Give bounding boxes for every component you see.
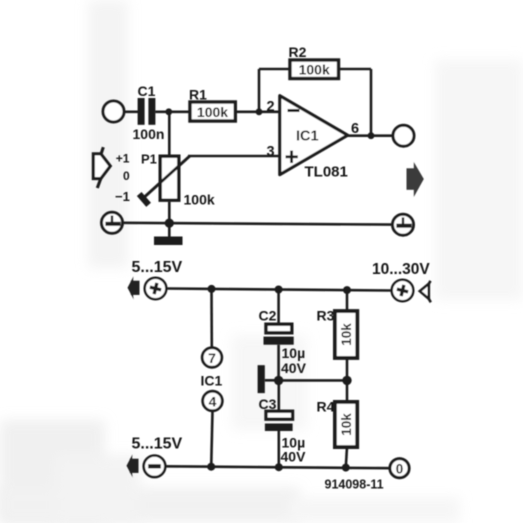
wire pin4 to bottom rail [211, 411, 212, 467]
wire C3 to bottom rail [277, 431, 280, 467]
wire ground bar to node [265, 379, 279, 382]
svg-text:5...15V: 5...15V [132, 436, 183, 453]
wire down to output [370, 69, 373, 136]
svg-text:TL081: TL081 [305, 164, 348, 181]
pot wiper arrowhead [139, 194, 148, 205]
wire node to R4 [346, 380, 349, 402]
wire rail to pin7 [210, 289, 213, 348]
node C3 bottom [275, 463, 283, 471]
svg-text:7: 7 [208, 350, 216, 366]
wire to R2 [259, 68, 290, 71]
ground terminal left [102, 212, 123, 233]
node pin7 branch [208, 285, 216, 293]
resistor R2 [290, 60, 339, 79]
svg-text:100n: 100n [133, 126, 165, 142]
wire R1 to pin 2 [235, 111, 280, 114]
input terminal [103, 101, 124, 122]
svg-text:100k: 100k [299, 62, 330, 78]
capacitor C2 [264, 324, 294, 345]
wire pot wiper to pin 3 [188, 155, 280, 158]
wire midpoint to R3/R4 [279, 379, 347, 382]
node R3/R4 junction [342, 376, 351, 385]
wire C2 down [277, 345, 280, 381]
wire R4 to bottom rail [346, 447, 347, 467]
pin 4 terminal [203, 391, 223, 411]
svg-text:+1: +1 [116, 152, 130, 166]
node pot/ground junction [165, 219, 174, 228]
svg-text:0: 0 [396, 462, 404, 477]
svg-text:C1: C1 [138, 83, 156, 99]
svg-text:R2: R2 [289, 44, 307, 60]
output arrow [407, 162, 424, 197]
supply arrow left top [128, 276, 140, 299]
svg-text:R1: R1 [189, 87, 207, 103]
wire rail to C2 [277, 290, 280, 325]
ground terminal right [393, 214, 414, 235]
svg-text:IC1: IC1 [296, 129, 319, 145]
potentiometer P1 [160, 156, 179, 200]
svg-text:10k: 10k [339, 413, 354, 436]
terminal minus [144, 456, 166, 478]
svg-text:R3: R3 [317, 308, 335, 324]
svg-text:10...30V: 10...30V [372, 261, 430, 278]
node feedback junction [256, 108, 263, 115]
svg-text:C2: C2 [259, 308, 277, 324]
svg-text:914098-11: 914098-11 [325, 478, 384, 492]
capacitor C3 [265, 411, 293, 431]
svg-text:−1: −1 [115, 189, 130, 204]
svg-text:4: 4 [209, 394, 217, 410]
wire C1 to R1 [155, 111, 190, 114]
capacitor C1 [138, 98, 156, 125]
wire R3 to node [346, 358, 349, 380]
bottom rail [165, 466, 390, 468]
svg-text:IC1: IC1 [201, 373, 223, 389]
svg-text:R4: R4 [317, 399, 335, 415]
node R4 bottom [342, 464, 350, 472]
svg-text:40V: 40V [281, 360, 307, 376]
svg-text:10k: 10k [339, 323, 354, 346]
output terminal [393, 125, 414, 146]
supply arrow left bottom [127, 454, 139, 477]
ground rail [123, 223, 393, 225]
ground bar mid [258, 365, 265, 393]
pin 7 terminal [202, 348, 222, 368]
node pin4 bottom [207, 463, 215, 471]
terminal 0 [390, 459, 409, 478]
node junction C1/R1/P1 [165, 108, 172, 115]
pot wiper diagonal [143, 156, 190, 199]
ground stem [168, 223, 171, 237]
svg-text:3: 3 [267, 144, 275, 160]
op-amp IC1 [280, 96, 348, 175]
wire junction down to P1 [168, 112, 171, 155]
wire pot to ground rail [168, 202, 171, 223]
resistor R3 [335, 311, 357, 358]
wire input to C1 [124, 111, 138, 114]
wire node to C3 [277, 380, 280, 411]
node R3 branch [343, 286, 351, 294]
wire feedback up [258, 69, 261, 112]
node C2 branch [275, 286, 283, 294]
top supply rail [166, 289, 391, 291]
ground bar [154, 237, 183, 246]
svg-text:10µ: 10µ [282, 345, 306, 361]
terminal + left [145, 278, 167, 300]
wire rail to R3 [346, 290, 349, 311]
node output junction [368, 132, 375, 139]
wire R2 right [339, 68, 372, 71]
node cap midpoint [274, 376, 283, 385]
arrow outline right [420, 281, 431, 303]
svg-text:100k: 100k [197, 104, 228, 120]
wire output [348, 134, 393, 137]
svg-text:0: 0 [123, 169, 130, 183]
terminal + right [392, 280, 414, 302]
resistor R1 [190, 102, 235, 121]
input arrow [93, 147, 110, 188]
svg-text:P1: P1 [141, 152, 157, 167]
svg-text:100k: 100k [184, 192, 215, 208]
minus input mark [288, 109, 300, 112]
resistor R4 [335, 402, 357, 447]
svg-text:2: 2 [267, 99, 275, 115]
svg-text:40V: 40V [281, 448, 307, 464]
plus input mark [286, 155, 298, 158]
svg-text:5...15V: 5...15V [132, 259, 183, 276]
